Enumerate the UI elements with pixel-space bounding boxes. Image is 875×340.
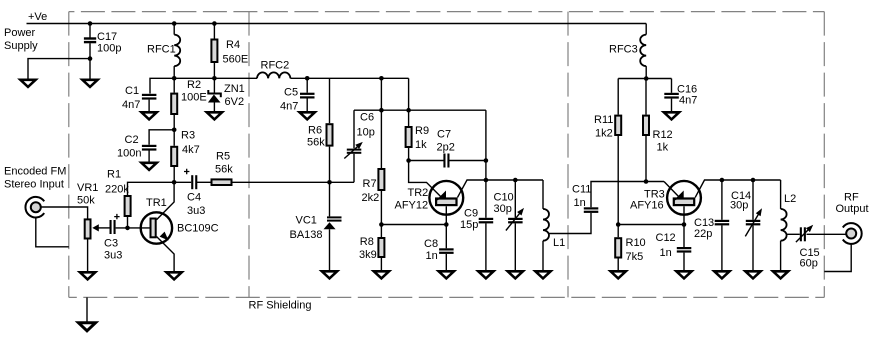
- svg-text:Supply: Supply: [4, 40, 38, 52]
- svg-text:R7: R7: [363, 178, 377, 190]
- wire C10 column: [514, 180, 516, 218]
- ground C10: [508, 271, 523, 278]
- svg-text:ZN1: ZN1: [224, 83, 245, 95]
- wire RFC1 bottom: [173, 66, 175, 78]
- ground C1: [142, 112, 157, 119]
- svg-text:C10: C10: [494, 192, 514, 204]
- capacitor C17: [84, 37, 96, 43]
- trimmer C10: [506, 208, 524, 231]
- svg-text:R10: R10: [626, 237, 646, 249]
- svg-text:R11: R11: [594, 114, 613, 126]
- INPUT + TR1 STAGE: [36, 182, 354, 271]
- resistor R4: [211, 40, 217, 63]
- svg-text:R9: R9: [415, 125, 429, 137]
- svg-text:C4: C4: [187, 192, 201, 204]
- svg-text:Encoded FM: Encoded FM: [4, 166, 66, 178]
- svg-text:C9: C9: [464, 208, 478, 220]
- wire feedback line y110: [354, 109, 486, 111]
- wire C6 top: [353, 154, 355, 183]
- OSCILLATOR STAGE TR2: [330, 78, 665, 270]
- svg-text:56k: 56k: [307, 137, 325, 149]
- svg-text:AFY12: AFY12: [395, 200, 429, 212]
- wire VC1 column: [329, 182, 331, 216]
- capacitor C11: [584, 207, 599, 213]
- svg-text:50k: 50k: [77, 195, 95, 207]
- svg-text:RFC1: RFC1: [147, 44, 176, 56]
- svg-text:1n: 1n: [574, 197, 586, 209]
- svg-text:BA138: BA138: [290, 229, 323, 241]
- resistor R2: [171, 94, 177, 114]
- wire TR1 emitter: [157, 237, 175, 272]
- wire L1 column: [542, 180, 544, 209]
- node collector-C14: [751, 178, 756, 183]
- svg-text:3u3: 3u3: [104, 250, 122, 262]
- wire TR3 emitter: [664, 182, 679, 198]
- ground TR1: [167, 272, 182, 279]
- node RFC3: [644, 76, 649, 81]
- resistor R1: [125, 196, 131, 216]
- svg-text:C6: C6: [360, 112, 374, 124]
- node R3-collector: [172, 180, 177, 185]
- resistor R7: [378, 169, 384, 190]
- wire R1 top: [128, 182, 175, 195]
- capacitor C5: [300, 93, 315, 99]
- wire C9 bottom: [485, 180, 487, 218]
- resistor R9: [406, 127, 412, 147]
- wire C11 top to emitter line: [591, 182, 664, 208]
- node C7-C9: [484, 158, 489, 163]
- C3 polarity +: [114, 214, 119, 219]
- svg-text:2k2: 2k2: [362, 192, 380, 204]
- svg-text:56k: 56k: [215, 164, 233, 176]
- wire R12 column: [645, 79, 647, 115]
- ground L2: [773, 271, 788, 278]
- svg-text:10p: 10p: [357, 127, 375, 139]
- svg-text:1n: 1n: [660, 247, 672, 259]
- svg-text:100n: 100n: [117, 148, 141, 160]
- wire C12 column: [683, 225, 685, 248]
- svg-text:VR1: VR1: [77, 182, 98, 194]
- ground R10: [611, 271, 626, 278]
- svg-text:4k7: 4k7: [182, 144, 200, 156]
- transistor TR3: [667, 181, 701, 215]
- wire TR2 collector: [458, 180, 544, 197]
- wire ZN1 column: [213, 78, 215, 92]
- node R2-R3-C2: [172, 128, 177, 133]
- svg-text:R6: R6: [308, 125, 322, 137]
- svg-text:C8: C8: [424, 238, 438, 250]
- wire L2 tap to C15: [786, 233, 800, 235]
- svg-text:RFC3: RFC3: [609, 44, 638, 56]
- svg-text:Output: Output: [836, 203, 869, 215]
- transistor TR2: [429, 181, 463, 215]
- svg-text:C3: C3: [104, 238, 118, 250]
- ground L1: [535, 271, 550, 278]
- svg-text:C7: C7: [437, 129, 451, 141]
- wire stage3 supply line: [618, 78, 671, 80]
- wire TR3 base: [618, 206, 684, 224]
- node collector-C13: [720, 178, 725, 183]
- wire TR3 collector: [695, 180, 780, 197]
- svg-text:4n7: 4n7: [679, 95, 697, 107]
- potentiometer VR1: [85, 219, 91, 238]
- wire input to VR1: [41, 207, 87, 219]
- svg-text:4n7: 4n7: [122, 99, 140, 111]
- svg-text:3k9: 3k9: [359, 249, 377, 261]
- svg-text:560E: 560E: [223, 54, 249, 66]
- capacitor C7: [443, 154, 449, 168]
- svg-text:100E: 100E: [181, 92, 207, 104]
- node RFC1-R2: [172, 76, 177, 81]
- wire C9 column top: [485, 110, 487, 180]
- ground PSU left: [20, 80, 35, 87]
- svg-text:R1: R1: [107, 169, 121, 181]
- ground C8: [439, 271, 454, 278]
- resistor R11: [615, 116, 621, 135]
- node collector-C9: [484, 178, 489, 183]
- svg-text:R4: R4: [226, 39, 240, 51]
- wire C14 column: [752, 180, 754, 220]
- coil RFC1: [174, 35, 180, 67]
- svg-text:+Ve: +Ve: [28, 11, 47, 23]
- svg-text:4n7: 4n7: [280, 101, 298, 113]
- resistor R6: [327, 124, 333, 145]
- node R11-R10-base: [616, 222, 621, 227]
- ground C17: [82, 80, 97, 87]
- wire R3 column: [173, 130, 175, 146]
- node R4-ZN1: [212, 76, 217, 81]
- C4 polarity +: [184, 169, 189, 174]
- svg-text:3u3: 3u3: [187, 205, 205, 217]
- varicap VC1: [324, 216, 342, 229]
- node rail-R4: [212, 21, 217, 26]
- wire C2 branch: [149, 130, 174, 145]
- svg-text:30p: 30p: [494, 203, 512, 215]
- node R9-top: [406, 108, 411, 113]
- wire R6 column: [329, 78, 331, 123]
- svg-text:R12: R12: [653, 129, 673, 141]
- wire TR2 emitter: [409, 161, 442, 198]
- wire RFC3 column: [645, 24, 647, 35]
- wire R7 column: [380, 78, 382, 168]
- svg-text:15p: 15p: [460, 219, 478, 231]
- svg-text:C11: C11: [572, 184, 591, 196]
- svg-text:100p: 100p: [97, 43, 121, 55]
- connector input jack: [25, 197, 44, 218]
- svg-text:R5: R5: [216, 151, 230, 163]
- ground C13: [714, 271, 729, 278]
- node R12-emitter: [644, 179, 649, 184]
- shield partition 1: [248, 12, 250, 298]
- VR1 wiper arrow: [92, 224, 99, 231]
- node base-C12: [682, 222, 687, 227]
- capacitor C3: [110, 220, 116, 234]
- ground C2: [142, 163, 157, 170]
- wire C7 left: [409, 160, 444, 162]
- trimmer C15: [796, 225, 813, 242]
- wire C5 column: [306, 78, 308, 92]
- node 0V-C17: [88, 56, 93, 61]
- svg-text:C5: C5: [284, 87, 298, 99]
- svg-text:7k5: 7k5: [626, 251, 644, 263]
- wire R1 bottom: [127, 217, 129, 228]
- capacitor C4: [191, 175, 197, 189]
- svg-text:AFY16: AFY16: [630, 200, 664, 212]
- wire 0V return: [28, 59, 90, 79]
- transistor TR1: [141, 212, 172, 243]
- resistor R5: [212, 179, 232, 185]
- shield partition 2: [567, 12, 569, 298]
- svg-text:2p2: 2p2: [437, 142, 455, 154]
- wire input shell: [36, 218, 69, 247]
- ground R8: [374, 271, 389, 278]
- OUTPUT STAGE TR3: [618, 79, 851, 272]
- wire C16 column: [671, 79, 673, 93]
- wire C3 to base: [116, 227, 150, 229]
- wire L1 tap to C11: [549, 213, 591, 234]
- node base-C8: [444, 222, 449, 227]
- svg-text:R8: R8: [360, 236, 374, 248]
- node collector-C10: [513, 178, 518, 183]
- shield ground: [79, 323, 96, 331]
- svg-text:VC1: VC1: [296, 215, 317, 227]
- svg-text:L1: L1: [553, 237, 565, 249]
- wire C4 to R5: [196, 181, 210, 183]
- svg-text:L2: L2: [784, 193, 796, 205]
- svg-text:C1: C1: [125, 85, 139, 97]
- wire output shell: [824, 244, 851, 272]
- ground VR1: [80, 272, 95, 279]
- wire R8 column: [380, 225, 382, 238]
- capacitor C1: [142, 94, 157, 100]
- wire TR1 collector: [157, 182, 175, 219]
- svg-text:1k2: 1k2: [595, 128, 613, 140]
- connector RF output jack: [843, 223, 862, 244]
- wire C1 bottom: [148, 100, 150, 111]
- coil RFC2: [257, 72, 290, 78]
- node R1-C3-base: [125, 226, 130, 231]
- resistor R12: [643, 116, 649, 135]
- resistor R3: [171, 147, 177, 166]
- svg-text:BC109C: BC109C: [177, 223, 219, 235]
- trimmer C6: [344, 142, 363, 159]
- shield ground wire: [86, 297, 88, 321]
- capacitor C9: [479, 218, 494, 224]
- resistor R8: [378, 238, 384, 257]
- node R7-R8-base: [379, 222, 384, 227]
- wire R2 column: [173, 78, 175, 92]
- zener ZN1: [207, 90, 222, 103]
- wire C7 right: [449, 160, 486, 162]
- capacitor C13: [715, 220, 730, 226]
- capacitor C8: [439, 248, 454, 254]
- wire R4 column: [213, 24, 215, 39]
- svg-text:TR1: TR1: [146, 197, 167, 209]
- svg-text:C17: C17: [97, 31, 117, 43]
- wire +Ve rail: [27, 23, 647, 25]
- resistor R10: [615, 238, 621, 257]
- svg-text:R3: R3: [181, 130, 195, 142]
- capacitor C16: [664, 93, 679, 99]
- capacitor C12: [677, 247, 692, 253]
- svg-text:60p: 60p: [800, 258, 818, 270]
- inductor L1: [543, 209, 549, 241]
- wire C8 column: [445, 225, 447, 249]
- trimmer C14: [745, 208, 762, 236]
- svg-text:1k: 1k: [657, 142, 669, 154]
- svg-text:TR2: TR2: [408, 187, 429, 199]
- node C6-R7-top: [379, 108, 384, 113]
- node rail-RFC1: [172, 21, 177, 26]
- svg-text:R2: R2: [187, 79, 201, 91]
- svg-text:30p: 30p: [730, 200, 748, 212]
- svg-text:220k: 220k: [105, 184, 129, 196]
- node R6-VC1: [327, 180, 332, 185]
- svg-text:RF: RF: [844, 192, 859, 204]
- svg-text:22p: 22p: [694, 228, 712, 240]
- wire RFC1 top: [173, 24, 175, 35]
- ground C16: [664, 112, 679, 119]
- wire supply node y78: [150, 78, 257, 93]
- inductor L2: [781, 209, 787, 241]
- coil RFC3: [640, 35, 646, 67]
- ground C9: [478, 271, 493, 278]
- node rail-C17: [88, 21, 93, 26]
- ground VC1: [322, 271, 337, 278]
- node supply-R7: [379, 76, 384, 81]
- wire C17 column: [89, 24, 91, 38]
- wire L2 column: [780, 180, 782, 209]
- wire wiper to C3: [98, 227, 110, 229]
- wire TR2 base: [381, 206, 446, 224]
- wire VR1 bottom: [87, 239, 89, 272]
- svg-text:C12: C12: [656, 232, 676, 244]
- wire C15 to output: [807, 233, 847, 235]
- svg-text:RFC2: RFC2: [261, 60, 290, 72]
- node C5: [305, 76, 310, 81]
- svg-text:C2: C2: [125, 134, 139, 146]
- ground ZN1: [207, 112, 222, 119]
- wire C13 column: [721, 180, 723, 220]
- wire signal rail: [233, 181, 355, 183]
- svg-text:1k: 1k: [415, 139, 427, 151]
- ground C5: [300, 112, 315, 119]
- svg-text:6V2: 6V2: [225, 96, 245, 108]
- svg-text:Stereo Input: Stereo Input: [4, 179, 64, 191]
- wire R10 column: [617, 225, 619, 238]
- wire R11 column: [617, 79, 619, 115]
- SHIELD-BOX: [69, 12, 825, 298]
- wire C4 left: [174, 181, 191, 183]
- ground C12: [676, 271, 691, 278]
- ground C14: [745, 271, 760, 278]
- wire R9 column: [408, 78, 410, 126]
- svg-text:1n: 1n: [426, 250, 438, 262]
- capacitor C2: [142, 145, 157, 151]
- node R9-C7-emitter: [406, 158, 411, 163]
- svg-text:Power: Power: [4, 27, 36, 39]
- svg-text:RF Shielding: RF Shielding: [249, 300, 312, 312]
